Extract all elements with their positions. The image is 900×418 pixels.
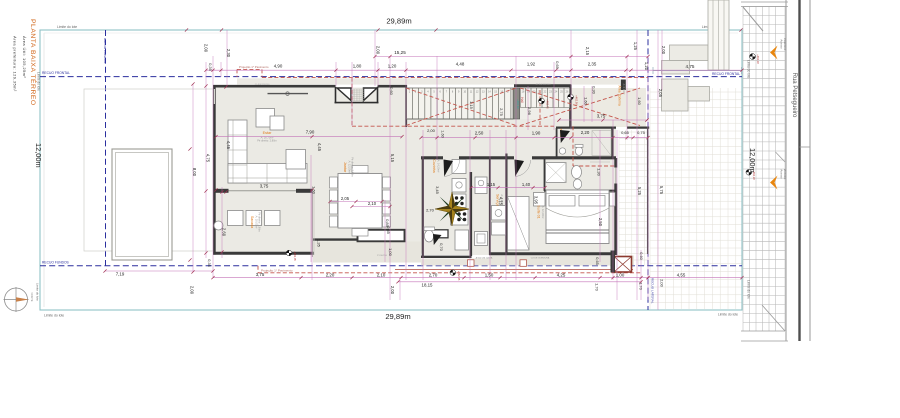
svg-text:2,00: 2,00 (204, 44, 209, 53)
lot boundary limite do lote (40, 30, 742, 310)
wall sacada bottom (213, 252, 314, 255)
svg-text:1,20: 1,20 (644, 62, 649, 71)
projecao dashed along recuo top (262, 77, 648, 79)
sacada chair 2 (246, 211, 262, 226)
swimming pool inner (116, 153, 169, 257)
entry step box (428, 230, 448, 238)
lot inner guide line top (44, 32, 738, 34)
suite bathroom shower box (546, 163, 567, 183)
svg-text:2,20: 2,20 (581, 130, 590, 135)
entry level marker (450, 270, 456, 276)
svg-text:1,90: 1,90 (532, 131, 541, 136)
garden patio faint outline (84, 89, 213, 251)
svg-text:Área prefeitura: 129,35m²: Área prefeitura: 129,35m² (13, 36, 18, 92)
svg-text:2,70: 2,70 (429, 272, 438, 277)
svg-text:1,60: 1,60 (441, 130, 445, 137)
boundary muro right of suite (647, 127, 649, 255)
kitchen fridge (452, 160, 466, 174)
banho social toilet (575, 147, 582, 156)
dimension line bottom 18,15 (398, 281, 641, 283)
door wedge banho social (560, 130, 570, 143)
svg-text:0,85: 0,85 (385, 219, 390, 228)
dimension line jantar 2,05 (330, 201, 382, 203)
svg-text:0,70: 0,70 (439, 243, 444, 252)
dimension line top tier3 left (206, 69, 406, 71)
svg-text:J1 400/110/100: J1 400/110/100 (255, 84, 271, 86)
window suite bath right wall (615, 168, 617, 184)
svg-text:15,25: 15,25 (394, 50, 406, 55)
washer box (492, 206, 506, 221)
svg-text:Pedestres: Pedestres (783, 38, 787, 51)
gate brace left V (337, 88, 351, 101)
svg-text:A 500 CM CAIXA: A 500 CM CAIXA (476, 257, 493, 260)
stove burners (455, 196, 458, 199)
wall top main left (213, 85, 336, 88)
wall suite bottom exterior (489, 252, 613, 255)
svg-text:0,65: 0,65 (555, 61, 560, 70)
window wall estar to sacada (216, 190, 312, 192)
stair left wall (405, 85, 407, 127)
svg-text:+462,60: +462,60 (516, 99, 520, 109)
svg-text:RECUO LATERAL: RECUO LATERAL (103, 38, 107, 64)
svg-text:+463,05: +463,05 (293, 251, 297, 261)
svg-text:0,65: 0,65 (595, 257, 599, 264)
kitchen sink box (452, 179, 466, 193)
svg-text:+462,45: +462,45 (457, 271, 461, 281)
svg-text:+462,90: +462,90 (575, 95, 579, 105)
projecao dashed stair cross X1 (406, 88, 516, 126)
entrance gate pergola frame (335, 87, 379, 103)
svg-text:+462,30: +462,30 (756, 54, 760, 64)
wall area externa bottom left piece (556, 126, 616, 128)
sacada level marker (286, 250, 292, 256)
svg-text:1,25: 1,25 (633, 42, 638, 51)
neighbour building step outline A2 (662, 61, 690, 75)
window end block left (216, 189, 229, 193)
floor stairs strip (406, 88, 570, 119)
floor apron strip south mid (421, 259, 490, 266)
svg-text:2,75: 2,75 (499, 108, 504, 117)
dimension line 2,10 entry (352, 206, 390, 208)
floor living dining area (216, 88, 423, 254)
svg-text:1,50: 1,50 (485, 272, 494, 277)
svg-text:1,60: 1,60 (637, 97, 642, 106)
north star wind rose (435, 192, 469, 226)
dimension line bottom row main (213, 277, 648, 279)
dining chair top (352, 166, 368, 174)
wall interior y158 kitchen suite top (421, 156, 443, 159)
svg-text:Acesso: Acesso (780, 39, 784, 49)
svg-text:2,70: 2,70 (426, 207, 435, 212)
sidewalk paving grid (Rua Petsegueiro) (743, 7, 785, 332)
svg-text:1,30: 1,30 (597, 168, 602, 177)
svg-text:Acesso: Acesso (780, 169, 784, 179)
neighbour building step outline B1 (662, 79, 689, 111)
svg-text:2,50: 2,50 (475, 131, 484, 136)
svg-text:1,20: 1,20 (388, 63, 397, 68)
svg-text:2,00: 2,00 (190, 286, 195, 295)
svg-text:RECUO FRONTAL: RECUO FRONTAL (42, 71, 70, 75)
svg-text:2,00: 2,00 (427, 128, 436, 133)
acesso pedestres level marker (750, 54, 756, 60)
svg-text:Limite do lote: Limite do lote (44, 314, 64, 318)
svg-text:2,60: 2,60 (222, 228, 227, 237)
svg-text:4,75: 4,75 (206, 154, 211, 163)
banho social shower corner (592, 131, 611, 156)
svg-text:8,00: 8,00 (192, 168, 197, 177)
svg-text:1,60: 1,60 (584, 97, 589, 106)
svg-text:2,20: 2,20 (326, 272, 335, 277)
svg-text:0,30: 0,30 (592, 86, 597, 95)
gate brace right V (364, 88, 378, 101)
dimension line estar 7,90 (216, 136, 402, 138)
svg-text:1,00: 1,00 (616, 272, 625, 277)
window end block right (296, 189, 313, 193)
dimension extension vertical lines (193, 30, 662, 310)
suite bathroom sink (572, 166, 582, 179)
svg-text:1,15: 1,15 (469, 101, 474, 110)
compass arrow east (16, 297, 29, 302)
floor apron strip south right (490, 256, 634, 266)
floor apron strip south left (313, 242, 421, 263)
svg-text:Veículos: Veículos (783, 169, 787, 180)
svg-text:2,35: 2,35 (588, 62, 597, 67)
svg-text:Suíte 01: Suíte 01 (537, 205, 541, 218)
svg-text:1,80: 1,80 (353, 63, 362, 68)
acesso pedestres arrow orange (770, 46, 778, 60)
svg-text:1,70: 1,70 (639, 282, 644, 291)
svg-text:12,00m: 12,00m (34, 143, 43, 168)
wall area externa bottom right piece (627, 126, 649, 128)
wall banho social right (611, 127, 613, 158)
svg-text:18,15: 18,15 (422, 283, 434, 288)
front yard paving tiles (650, 88, 742, 309)
svg-text:Jantar: Jantar (343, 162, 347, 173)
dimension line top tier3 right (406, 69, 742, 71)
dimension line area externa 3,75 (559, 119, 647, 121)
svg-text:3,95: 3,95 (534, 196, 539, 205)
svg-text:4,48: 4,48 (456, 62, 465, 67)
svg-text:0,75: 0,75 (637, 130, 646, 135)
bed blanket lines (546, 230, 609, 233)
svg-text:0,65: 0,65 (386, 226, 391, 235)
hall level marker 2 (568, 94, 574, 100)
stair bottom edge line (407, 118, 513, 120)
svg-text:7,90: 7,90 (306, 130, 315, 135)
floor area externa (571, 88, 646, 127)
dimension line kitchen row (421, 137, 648, 139)
sofa L vertical arm (228, 120, 247, 183)
svg-text:7,19: 7,19 (116, 272, 125, 277)
svg-text:P1 90/210: P1 90/210 (377, 255, 388, 257)
dimension line bottom right 4,55 (648, 277, 742, 279)
svg-text:4,55: 4,55 (677, 272, 686, 277)
svg-text:Projeção 1° Pavimento: Projeção 1° Pavimento (239, 65, 269, 69)
suite wardrobe with diagonal (508, 197, 530, 251)
gate center hatch panel (352, 89, 365, 101)
svg-text:2,50: 2,50 (598, 218, 603, 227)
svg-text:1,70: 1,70 (595, 283, 600, 292)
wall stub suite hall corner (505, 154, 507, 159)
dining table (338, 174, 382, 229)
wall top between gate and stairs (378, 85, 408, 88)
svg-text:Limite do lote: Limite do lote (747, 280, 751, 299)
svg-text:Limite do lote: Limite do lote (57, 25, 77, 29)
neighbour building step outline A1 (670, 45, 709, 61)
suite bed nightstand right (610, 193, 616, 207)
svg-text:4,45: 4,45 (317, 143, 322, 152)
sofa cushion lines (228, 120, 307, 183)
coffee table small (270, 116, 284, 130)
svg-text:Pé direito: 2,80m: Pé direito: 2,80m (351, 157, 355, 177)
svg-text:Projeção 1° Pavimento: Projeção 1° Pavimento (261, 268, 293, 272)
svg-text:2,00: 2,00 (660, 279, 665, 288)
burner dots right (457, 212, 461, 216)
wall jantar kitchen divider (422, 157, 424, 258)
dimension line suite bottom 4,25 1,00 (506, 277, 648, 279)
bed blanket fold (546, 208, 609, 217)
dimension line suite row 1,15 1,40 (471, 187, 545, 189)
svg-text:Pé direito: 2,80m: Pé direito: 2,80m (257, 138, 277, 142)
street far edge line (809, 0, 811, 341)
laundry tank box (492, 222, 506, 235)
acesso veiculos arrow orange (770, 176, 778, 190)
recuo lateral dashed line left (105, 30, 107, 266)
svg-text:2,00: 2,00 (390, 286, 395, 295)
wall servico right suite left (505, 158, 507, 255)
svg-text:29,89m: 29,89m (385, 312, 410, 321)
svg-text:Área Útil: 105,25m²: Área Útil: 105,25m² (22, 36, 27, 78)
banho social sink (559, 148, 565, 154)
swimming pool outer (112, 149, 172, 260)
dimension tick marks (103, 28, 743, 283)
svg-text:4,25: 4,25 (557, 272, 566, 277)
projecao dashed vertical at 573 (572, 126, 574, 166)
svg-text:Externa: Externa (618, 94, 622, 106)
neighbour building step outline B2 (688, 87, 710, 102)
svg-text:1,40: 1,40 (522, 182, 531, 187)
coffee table large (256, 109, 275, 128)
kitchen stove box (452, 194, 466, 208)
projecao dashed vertical at 258 bottom (257, 266, 259, 273)
suite bathroom toilet (573, 179, 581, 189)
door wedge suite corridor (515, 160, 525, 177)
svg-text:Área: Área (618, 86, 622, 93)
street axis thick line (798, 0, 800, 341)
armchair (286, 150, 306, 170)
sacada round table (214, 221, 223, 230)
recuo fundos dashed line bottom (40, 265, 742, 267)
wall kitchen block bottom (421, 256, 472, 258)
sacada chair 3 (265, 211, 281, 226)
wall exterior left (213, 85, 216, 255)
dining chairs left column (330, 177, 338, 188)
svg-text:0,35: 0,35 (207, 259, 211, 266)
svg-text:4,45: 4,45 (226, 141, 231, 150)
svg-text:1,35: 1,35 (317, 239, 322, 248)
svg-text:Estar: Estar (263, 131, 273, 135)
tv on wall (268, 93, 309, 95)
wall servico left (489, 158, 491, 255)
dining chairs right column (383, 177, 391, 188)
svg-text:RECUO FRONTAL: RECUO FRONTAL (712, 72, 740, 76)
svg-text:2,15: 2,15 (585, 47, 590, 56)
suite bed headboard (546, 193, 609, 195)
street curb line (785, 0, 787, 341)
wall varanda south recessed (313, 238, 359, 240)
kitchen wc toilet (424, 230, 433, 242)
suite bed nightstand left (534, 193, 546, 207)
svg-text:0,60: 0,60 (389, 87, 394, 96)
street tick (800, 146, 811, 148)
svg-text:1,92: 1,92 (527, 62, 536, 67)
svg-text:A: 6,30m²: A: 6,30m² (622, 84, 625, 95)
svg-text:2,96: 2,96 (527, 107, 532, 116)
kitchen counter island (455, 230, 469, 250)
muro pillar top right (621, 80, 626, 91)
svg-text:1,00: 1,00 (388, 248, 393, 257)
stair tread numbers (409, 91, 569, 94)
svg-text:Limite do lote: Limite do lote (36, 283, 40, 301)
svg-text:3,75: 3,75 (597, 114, 606, 119)
svg-text:Sacada: Sacada (250, 216, 254, 228)
grease trap wall collar (611, 251, 616, 273)
svg-text:4,75: 4,75 (686, 64, 695, 69)
wall banho social left (556, 128, 558, 157)
svg-text:1,15: 1,15 (487, 182, 496, 187)
sacada chair 1 (228, 211, 244, 226)
side passage paving tiles (619, 130, 648, 266)
svg-text:4,15: 4,15 (499, 197, 504, 206)
kitchen counter low (451, 210, 469, 226)
svg-text:5,25: 5,25 (637, 187, 642, 196)
svg-text:2,10: 2,10 (368, 201, 377, 206)
sofa L horizontal arm (228, 164, 307, 184)
wall suite bath bottom (544, 190, 616, 192)
svg-text:0,60: 0,60 (639, 252, 643, 259)
sewage inspection box 2 (520, 260, 527, 267)
floor banho social (556, 128, 613, 158)
projecao dashed stair cross X2 (520, 88, 640, 126)
svg-text:2,05: 2,05 (658, 89, 663, 98)
svg-text:0,35: 0,35 (208, 63, 213, 72)
sidewalk ramp diagonal middle (776, 152, 786, 162)
dining chair bottom (352, 229, 368, 237)
acesso veiculos level marker (746, 170, 752, 176)
svg-text:2,00: 2,00 (376, 46, 381, 55)
wall suite bath left (544, 159, 546, 191)
svg-text:1,60: 1,60 (312, 186, 317, 195)
svg-text:Limite do lote: Limite do lote (37, 72, 41, 91)
svg-text:5,15: 5,15 (390, 154, 395, 163)
svg-text:PLANTA BAIXA TÉRREO: PLANTA BAIXA TÉRREO (29, 19, 38, 106)
floor right wing kitchen suite (422, 158, 617, 255)
svg-text:12,00m: 12,00m (748, 148, 757, 173)
pantry tub box (475, 177, 487, 194)
svg-text:Rua Petsegueiro: Rua Petsegueiro (791, 73, 797, 118)
svg-text:Limite do lote: Limite do lote (718, 313, 738, 317)
svg-text:A: 12,30m²: A: 12,30m² (541, 206, 545, 219)
recuo lateral dashed line right (647, 30, 649, 310)
sidewalk ramp diagonal bottom (762, 305, 785, 331)
projecao dashed vertical at 540 (539, 90, 541, 126)
dimension line top tier2 (375, 56, 648, 58)
door wedge hall to kitchen (444, 160, 454, 177)
svg-text:J2 150/110/100: J2 150/110/100 (536, 84, 552, 86)
svg-text:CX DE GORDURA: CX DE GORDURA (531, 257, 550, 260)
projecao dashed bottom (258, 272, 641, 274)
svg-text:2,30: 2,30 (226, 49, 231, 58)
svg-text:NORTE: NORTE (30, 292, 34, 301)
svg-text:3,45: 3,45 (435, 186, 440, 195)
svg-text:2,00: 2,00 (661, 46, 666, 55)
wall top right wing (514, 84, 571, 87)
staircase flight 2 treads (521, 88, 570, 108)
svg-text:4,90: 4,90 (274, 63, 283, 68)
compass circle bottom left (5, 288, 28, 311)
svg-text:Hall: Hall (520, 97, 524, 103)
svg-text:Cozinha: Cozinha (432, 159, 436, 172)
window left wall light section (213, 89, 215, 104)
projecao dashed horizontal mid (352, 125, 554, 127)
entry planter box (358, 230, 405, 242)
sewage pipe line bottom (395, 269, 633, 271)
staircase landing block (513, 88, 520, 119)
wall area externa left (569, 85, 571, 129)
suite bed (546, 190, 609, 244)
floor hall strip (406, 119, 616, 158)
svg-text:5,75: 5,75 (659, 186, 664, 195)
projecao dashed vertical at 352 (351, 78, 353, 127)
sidewalk top double edge (741, 1, 788, 3)
staircase flight 1 treads (407, 88, 513, 119)
svg-text:RECUO FUNDOS: RECUO FUNDOS (42, 261, 70, 265)
wall suite right exterior (614, 158, 617, 168)
svg-text:3,75: 3,75 (260, 184, 269, 189)
door wedge entry (433, 234, 442, 245)
4,75 dimension line right (653, 70, 742, 72)
sidewalk ramp diagonal top (743, 7, 763, 31)
svg-text:2,05: 2,05 (341, 196, 350, 201)
laundry sink box (475, 232, 488, 246)
dimension line sacada 3,75 (216, 189, 312, 191)
recuo frontal dashed line top (40, 76, 742, 78)
dimension line pool 7,19 (105, 270, 213, 272)
window wall jantar to varanda (311, 190, 313, 257)
sidewalk bottom edge (741, 330, 785, 332)
hall level marker 1 (539, 98, 545, 104)
svg-text:0,65: 0,65 (621, 130, 630, 135)
svg-text:2,10: 2,10 (377, 272, 386, 277)
sewage inspection box 1 (468, 260, 475, 267)
svg-text:3,75: 3,75 (256, 272, 265, 277)
suite bed pillows (549, 196, 575, 207)
svg-text:RECUO LATERAL: RECUO LATERAL (651, 278, 655, 304)
svg-text:Linha do lote: Linha do lote (747, 60, 751, 78)
neighbour roof bars top right (708, 0, 729, 70)
projecao pavimento superior dashed top jog (237, 68, 262, 70)
lot inner guide line left (43, 33, 45, 307)
suite bathroom counter line (590, 161, 610, 163)
wall kitchen right (469, 172, 472, 256)
svg-text:Pé direito: 2,80m: Pé direito: 2,80m (258, 212, 262, 232)
svg-text:+462,75: +462,75 (546, 99, 550, 109)
projecao dashed horizontal at 166 (573, 165, 616, 167)
svg-text:A: 14,20m²: A: 14,20m² (437, 160, 441, 173)
svg-text:29,89m: 29,89m (386, 17, 411, 26)
grease trap box (614, 257, 632, 273)
upper floor slab band above front wall (237, 78, 620, 84)
